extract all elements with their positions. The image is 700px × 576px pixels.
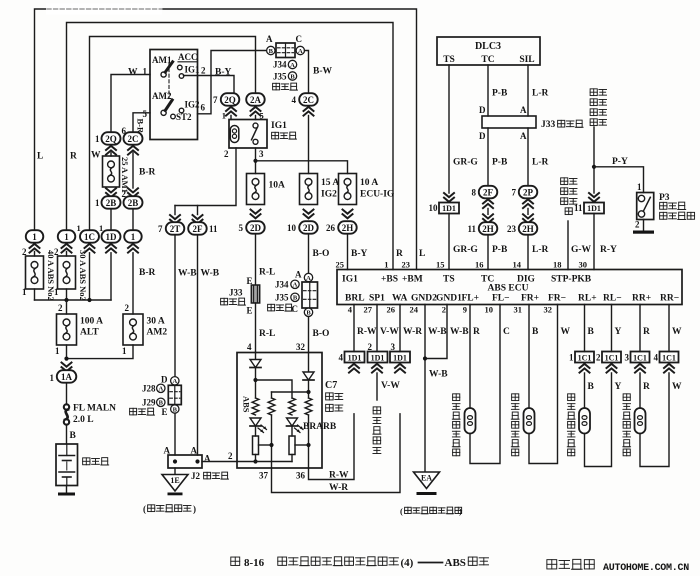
svg-text:A: A bbox=[295, 270, 302, 280]
svg-text:P-B: P-B bbox=[492, 89, 508, 99]
svg-text:ACC: ACC bbox=[178, 52, 198, 62]
svg-text:2C: 2C bbox=[303, 95, 314, 105]
fuse 10A ECU-IG bbox=[339, 174, 357, 205]
bus joining fuse outputs bbox=[35, 299, 112, 301]
wire from brake light switch to ECU STP bbox=[567, 221, 569, 270]
svg-text:1D1: 1D1 bbox=[393, 354, 407, 363]
wire R-L from 2D(5) to J33 bbox=[255, 234, 257, 285]
svg-text:TS: TS bbox=[443, 55, 455, 65]
wire B-O from 2D(10) to J34 middle bbox=[308, 234, 310, 273]
svg-text:32: 32 bbox=[296, 342, 306, 352]
svg-text:W-B: W-B bbox=[201, 269, 220, 279]
svg-text:P3: P3 bbox=[659, 193, 670, 203]
ground EA bbox=[414, 472, 440, 489]
label RL wheel speed sensor text bbox=[568, 394, 575, 401]
connector 7 2T bbox=[170, 215, 180, 219]
svg-text:IG2: IG2 bbox=[321, 190, 337, 200]
wire connector 2A to relay pin 5 bbox=[255, 116, 257, 120]
svg-text:FL MALN: FL MALN bbox=[73, 404, 116, 414]
svg-text:B-O: B-O bbox=[313, 329, 330, 339]
combination meter C7 box bbox=[237, 353, 322, 469]
svg-text:1: 1 bbox=[569, 353, 574, 363]
svg-text:RR+: RR+ bbox=[632, 294, 651, 304]
svg-text:W: W bbox=[672, 382, 682, 392]
svg-text:A: A bbox=[520, 105, 527, 115]
svg-text:1D1: 1D1 bbox=[442, 204, 456, 213]
svg-text:11: 11 bbox=[467, 224, 476, 234]
svg-text:DLC3: DLC3 bbox=[475, 41, 501, 52]
svg-text:GR-G: GR-G bbox=[453, 158, 478, 168]
svg-text:1: 1 bbox=[50, 373, 55, 383]
svg-text:1: 1 bbox=[95, 134, 100, 144]
svg-text:J35: J35 bbox=[273, 72, 287, 82]
svg-text:SP1: SP1 bbox=[369, 294, 385, 304]
svg-text:J33: J33 bbox=[541, 120, 556, 130]
svg-text:23: 23 bbox=[507, 224, 517, 234]
wire connector 2C down to fuse 15A IG2 bbox=[308, 116, 310, 174]
svg-text:AUTOHOME.COM.CN: AUTOHOME.COM.CN bbox=[603, 563, 689, 574]
svg-text:1C1: 1C1 bbox=[605, 354, 619, 363]
svg-text:26: 26 bbox=[326, 223, 336, 233]
svg-text:C7: C7 bbox=[325, 380, 337, 391]
svg-text:R-L: R-L bbox=[259, 329, 275, 339]
svg-text:2H: 2H bbox=[482, 224, 494, 234]
svg-text:B-R: B-R bbox=[139, 168, 156, 178]
svg-text:25: 25 bbox=[336, 260, 345, 270]
svg-text:C: C bbox=[292, 304, 299, 314]
fusible link FL MALN 2.0 L bbox=[66, 383, 68, 405]
C7 resistor branch C bbox=[289, 398, 296, 415]
svg-text:10A: 10A bbox=[269, 181, 286, 191]
svg-text:ABS ECU: ABS ECU bbox=[488, 284, 529, 294]
svg-text:WA: WA bbox=[392, 294, 407, 304]
C7 diode on pin32 branch bbox=[308, 353, 310, 373]
svg-text:AM2: AM2 bbox=[147, 328, 168, 338]
svg-text:+BM: +BM bbox=[402, 275, 423, 285]
svg-text:P-Y: P-Y bbox=[612, 157, 628, 167]
DLC3 diagnostic connector box bbox=[437, 37, 540, 65]
wire 2B(2) down to connector 1 bbox=[132, 209, 134, 230]
svg-text:100 A: 100 A bbox=[80, 317, 103, 327]
svg-text:8-16: 8-16 bbox=[244, 557, 265, 569]
svg-text:+BS: +BS bbox=[381, 275, 398, 285]
svg-text:16: 16 bbox=[475, 260, 484, 270]
svg-text:ECU-IG: ECU-IG bbox=[360, 190, 395, 200]
svg-text:1C1: 1C1 bbox=[662, 354, 676, 363]
svg-text:RR−: RR− bbox=[660, 294, 679, 304]
wire R-W from ECU BRL to 1D1 bbox=[353, 305, 355, 352]
svg-text:1: 1 bbox=[32, 232, 37, 242]
svg-text:R-Y: R-Y bbox=[600, 245, 617, 255]
wire relay pin3 junction to fuse ECU-IG bbox=[256, 161, 348, 174]
svg-text:L-R: L-R bbox=[532, 89, 549, 99]
svg-text:W-R: W-R bbox=[403, 327, 422, 337]
svg-text:1: 1 bbox=[122, 346, 127, 356]
svg-text:W-B: W-B bbox=[450, 327, 469, 337]
wire R feed (R wire: up, across, down to ECU +BS) bbox=[67, 23, 394, 270]
wire R-L from J33 to C7 pin 4 bbox=[255, 303, 257, 353]
label B on battery wire bbox=[66, 425, 68, 444]
svg-text:W-B: W-B bbox=[428, 327, 447, 337]
svg-text:B: B bbox=[306, 310, 311, 317]
svg-text:A: A bbox=[164, 446, 171, 456]
connector J34/J35 (top) grid box bbox=[276, 43, 295, 58]
C7 gauge A tap to branch B bbox=[259, 444, 272, 446]
wire W-B from 2T down to J2 bbox=[174, 235, 176, 376]
svg-text:2: 2 bbox=[442, 305, 446, 315]
wire from radio display down to 1D1 bbox=[593, 127, 595, 193]
wire, label 2, fuse 30 A ABS No2 bbox=[66, 252, 68, 257]
svg-text:4: 4 bbox=[339, 353, 344, 363]
svg-text:(: ( bbox=[143, 504, 146, 514]
svg-text:1: 1 bbox=[22, 287, 27, 297]
svg-text:Y: Y bbox=[615, 382, 622, 392]
wire 1C feed (1C wire up, across, down into connector 2A) bbox=[90, 37, 256, 231]
C7 resistor branch A bbox=[252, 398, 259, 415]
wire relay pin 2 down and left to 2T/2F connectors bbox=[175, 148, 236, 206]
wire TS from DLC3 bbox=[448, 65, 450, 193]
label FL wheel speed sensor text bbox=[453, 394, 460, 401]
svg-text:1D1: 1D1 bbox=[587, 204, 601, 213]
svg-text:W: W bbox=[561, 327, 571, 337]
wire B-Y from 2H(26) to ECU IG1 bbox=[347, 234, 349, 269]
wire V-W from ECU SP1 to 1D1 bbox=[376, 305, 378, 352]
svg-text:2P: 2P bbox=[523, 187, 534, 197]
svg-text:2: 2 bbox=[596, 353, 601, 363]
svg-text:GND1: GND1 bbox=[436, 294, 462, 304]
C7 gauge element A bbox=[253, 436, 259, 455]
svg-text:6: 6 bbox=[201, 103, 206, 113]
svg-text:E: E bbox=[162, 407, 168, 417]
svg-text:J33: J33 bbox=[229, 288, 243, 298]
svg-text:A: A bbox=[290, 62, 295, 69]
wire FL- return to ECU bbox=[470, 305, 500, 464]
svg-text:3: 3 bbox=[391, 342, 396, 352]
C7 diode on pin4 branch bbox=[255, 353, 257, 360]
svg-text:2.0 L: 2.0 L bbox=[73, 415, 94, 425]
C7 bus to pin 2 bbox=[237, 461, 292, 463]
svg-text:FR+: FR+ bbox=[521, 294, 539, 304]
svg-text:R: R bbox=[70, 152, 77, 162]
svg-text:2H: 2H bbox=[342, 223, 354, 233]
svg-text:1D: 1D bbox=[106, 232, 118, 242]
svg-text:R-L: R-L bbox=[259, 268, 275, 278]
svg-text:10: 10 bbox=[485, 305, 494, 315]
svg-text:24: 24 bbox=[410, 305, 419, 315]
svg-text:B: B bbox=[588, 327, 595, 337]
wire fuse40 down to bus bbox=[34, 289, 36, 300]
svg-text:2: 2 bbox=[201, 66, 206, 76]
svg-text:RL−: RL− bbox=[603, 294, 622, 304]
C7 BRARB warning LED bbox=[287, 418, 298, 426]
svg-text:5: 5 bbox=[143, 109, 148, 119]
C7 gauge element C bbox=[289, 436, 295, 455]
svg-text:1A: 1A bbox=[61, 372, 73, 382]
svg-text:14: 14 bbox=[513, 260, 522, 270]
connector 26 2H below fuse ECU-IG bbox=[343, 210, 353, 214]
C7 gauge C tap to branch D bbox=[295, 444, 309, 446]
wire TC J33 to 2F bbox=[487, 128, 489, 187]
fuse 100 A ALT bbox=[66, 300, 68, 314]
svg-text:1: 1 bbox=[222, 111, 226, 121]
label FR wheel speed sensor text bbox=[512, 394, 519, 401]
svg-text:J34: J34 bbox=[273, 60, 287, 70]
wire W-B from 2F down to J2 bbox=[197, 235, 199, 455]
svg-text:FL+: FL+ bbox=[462, 294, 480, 304]
svg-text:7: 7 bbox=[512, 188, 517, 198]
svg-text:L: L bbox=[419, 249, 425, 259]
svg-text:B: B bbox=[159, 400, 164, 407]
ignition switch assembly box bbox=[150, 50, 198, 140]
watermark overlay top-left (white smudge breaking the border) bbox=[46, 4, 162, 15]
wire RL- from ECU to 1C1 bbox=[611, 305, 613, 352]
svg-text:FR−: FR− bbox=[548, 294, 566, 304]
svg-text:2Q: 2Q bbox=[224, 95, 236, 105]
svg-text:ALT: ALT bbox=[80, 328, 99, 338]
wire 1C down to bus bbox=[89, 253, 91, 300]
svg-text:B-Y: B-Y bbox=[351, 249, 368, 259]
label lianjieqi (connector) under J34/J35 bbox=[273, 83, 280, 90]
svg-text:C: C bbox=[296, 34, 303, 44]
svg-text:A: A bbox=[298, 48, 303, 55]
svg-text:GR-G: GR-G bbox=[453, 245, 478, 255]
svg-text:30 A: 30 A bbox=[147, 317, 165, 327]
wire FL+ from ECU to sensor bbox=[469, 305, 471, 409]
svg-text:32: 32 bbox=[544, 305, 553, 315]
svg-text:W: W bbox=[128, 68, 138, 78]
svg-text:15: 15 bbox=[436, 260, 445, 270]
svg-text:P-B: P-B bbox=[492, 245, 508, 255]
svg-text:2A: 2A bbox=[250, 95, 262, 105]
svg-text:2Q: 2Q bbox=[105, 134, 117, 144]
svg-text:1E: 1E bbox=[170, 476, 179, 485]
svg-text:A: A bbox=[306, 275, 311, 282]
svg-text:E: E bbox=[247, 306, 253, 316]
relay IG1 switch contacts bbox=[253, 123, 258, 128]
svg-text:B-R: B-R bbox=[139, 268, 156, 278]
svg-text:1C1: 1C1 bbox=[578, 354, 592, 363]
svg-text:J2: J2 bbox=[191, 471, 201, 481]
svg-text:9: 9 bbox=[463, 305, 467, 315]
svg-text:R: R bbox=[473, 327, 480, 337]
svg-text:1C: 1C bbox=[84, 232, 95, 242]
svg-text:A: A bbox=[172, 378, 177, 385]
svg-text:A: A bbox=[520, 131, 527, 141]
wire RL+ from ECU to 1C1 bbox=[584, 305, 586, 352]
C7 branch B horizontal bbox=[272, 391, 309, 393]
svg-text:2: 2 bbox=[228, 451, 233, 461]
svg-text:2C: 2C bbox=[128, 134, 139, 144]
wheel speed sensor FR (front) bbox=[524, 408, 535, 434]
svg-text:10: 10 bbox=[429, 203, 439, 213]
svg-text:FL−: FL− bbox=[492, 294, 510, 304]
wire B-O from J34 middle to C7 pin 32 bbox=[308, 317, 310, 353]
svg-text:G-W: G-W bbox=[571, 245, 592, 255]
connector 10 1D1 on TS wire bbox=[444, 193, 454, 197]
svg-text:R-W: R-W bbox=[357, 327, 377, 337]
connector 1A bbox=[62, 363, 72, 367]
svg-text:V-W: V-W bbox=[381, 381, 400, 391]
svg-text:R: R bbox=[643, 382, 650, 392]
svg-text:W: W bbox=[672, 327, 682, 337]
C7 resistor branch B bbox=[268, 398, 275, 415]
svg-text:): ) bbox=[193, 504, 196, 514]
wire FR- return to ECU bbox=[529, 305, 558, 464]
wire 1D down to bus bbox=[110, 253, 112, 300]
svg-text:W: W bbox=[91, 151, 101, 161]
wire 2B to 1D bbox=[110, 209, 112, 230]
fuse 15A IG2 bbox=[300, 174, 318, 205]
svg-text:D: D bbox=[479, 131, 486, 141]
svg-text:10 A: 10 A bbox=[360, 178, 378, 188]
svg-text:30: 30 bbox=[579, 260, 588, 270]
wheel speed sensor RL (rear) bbox=[579, 408, 590, 434]
svg-text:D: D bbox=[479, 105, 486, 115]
svg-text:1: 1 bbox=[95, 198, 100, 208]
svg-text:4: 4 bbox=[247, 342, 252, 352]
svg-text:4: 4 bbox=[654, 353, 659, 363]
svg-text:L-R: L-R bbox=[532, 245, 549, 255]
wire RR- return bbox=[640, 373, 669, 467]
connector 1 (column B-R) bbox=[124, 230, 142, 243]
label from brake light switch (laizi zhidong deng kaiguan) bbox=[561, 178, 568, 185]
svg-text:11: 11 bbox=[209, 224, 218, 234]
svg-text:W-B: W-B bbox=[429, 370, 448, 380]
svg-text:C: C bbox=[503, 327, 510, 337]
svg-text:EA: EA bbox=[421, 474, 432, 483]
caption figure 8-16 bbox=[231, 557, 240, 565]
connector J28/J29 grid box with circled pins bbox=[171, 377, 179, 385]
svg-text:D: D bbox=[161, 375, 168, 385]
svg-text:L: L bbox=[37, 152, 43, 162]
svg-text:IG1: IG1 bbox=[185, 65, 201, 75]
svg-text:1D1: 1D1 bbox=[371, 354, 385, 363]
wire V-W to combination meter bbox=[376, 373, 378, 400]
svg-text:18: 18 bbox=[553, 260, 562, 270]
svg-text:(4): (4) bbox=[401, 557, 414, 569]
wire SIL from DLC3 with L-R label bbox=[527, 65, 529, 116]
svg-text:15 A: 15 A bbox=[321, 178, 339, 188]
svg-text:J34: J34 bbox=[275, 280, 289, 290]
svg-text:B: B bbox=[588, 382, 595, 392]
svg-text:B-O: B-O bbox=[313, 249, 330, 259]
svg-text:1: 1 bbox=[384, 260, 388, 270]
svg-text:5: 5 bbox=[239, 223, 244, 233]
svg-text:GND2: GND2 bbox=[411, 294, 437, 304]
svg-text:36: 36 bbox=[296, 471, 306, 481]
svg-text:B: B bbox=[293, 295, 298, 302]
svg-text:26: 26 bbox=[387, 305, 396, 315]
label RR wheel speed sensor text bbox=[623, 394, 630, 401]
svg-text:2: 2 bbox=[125, 303, 130, 313]
svg-text:L-R: L-R bbox=[532, 158, 549, 168]
svg-text:R-W: R-W bbox=[329, 471, 349, 481]
svg-text:2: 2 bbox=[224, 149, 229, 159]
wire B-R from switch AM2 down left side bbox=[133, 113, 150, 132]
svg-text:1D1: 1D1 bbox=[348, 354, 362, 363]
svg-text:J29: J29 bbox=[142, 398, 156, 408]
svg-text:W-B: W-B bbox=[178, 269, 197, 279]
connector 2B pin 2 bbox=[128, 188, 138, 192]
svg-text:(: ( bbox=[400, 506, 403, 516]
svg-text:B: B bbox=[269, 48, 274, 55]
wire relay pin 3 to fuse 10A with junction bbox=[255, 148, 257, 174]
relay IG1 box bbox=[229, 120, 267, 149]
svg-text:J28: J28 bbox=[142, 384, 156, 394]
svg-text:37: 37 bbox=[259, 471, 269, 481]
wheel speed sensor RR (rear) bbox=[635, 408, 646, 434]
wire FR+ from ECU to sensor bbox=[528, 305, 530, 409]
svg-text:31: 31 bbox=[514, 305, 523, 315]
battery ground bbox=[66, 486, 68, 493]
connector 2A bbox=[246, 93, 265, 106]
wire RR- from ECU to 1C1 bbox=[668, 305, 670, 352]
fuse 25 A AM1 bbox=[110, 153, 112, 156]
svg-text:ST2: ST2 bbox=[176, 112, 192, 122]
wire RL+ from 1C1 to sensor bbox=[584, 373, 586, 408]
svg-text:): ) bbox=[459, 506, 462, 516]
svg-text:B-W: B-W bbox=[313, 67, 333, 77]
svg-text:A: A bbox=[191, 446, 198, 456]
svg-text:1: 1 bbox=[77, 223, 81, 233]
ground 1E below J2 bbox=[174, 468, 176, 475]
J34 pin A (circled) bbox=[296, 46, 304, 54]
C7 resistor branch D bbox=[305, 398, 312, 415]
svg-text:TC: TC bbox=[481, 55, 494, 65]
svg-text:30 A ABS No2: 30 A ABS No2 bbox=[78, 250, 88, 301]
wire from J34 pin B to switch IG2 bbox=[198, 51, 267, 114]
wire RL- return bbox=[585, 373, 612, 467]
label battery (xudianchi) bbox=[83, 458, 90, 465]
wire L feed (battery L wire: left column up, across top, down to ECU +BM) bbox=[35, 9, 417, 270]
wire SIL J33 to 2P bbox=[527, 128, 529, 187]
svg-text:23: 23 bbox=[402, 260, 411, 270]
label lianjieqi E bbox=[130, 408, 137, 415]
wire B-Y from switch IG1 to connector 2Q bbox=[184, 76, 235, 94]
svg-text:BRL: BRL bbox=[345, 294, 365, 304]
connector 1 (column L) bbox=[26, 230, 44, 243]
wire joining ALT and AM2 fuse outputs bbox=[66, 345, 68, 359]
svg-text:7: 7 bbox=[213, 95, 218, 105]
wire J2 to C7 pin 2 bbox=[202, 461, 237, 463]
label to combination meter (zhi zuhe yibiao) bbox=[373, 407, 380, 414]
svg-text:1: 1 bbox=[55, 346, 60, 356]
svg-text:2B: 2B bbox=[128, 198, 139, 208]
svg-text:RL+: RL+ bbox=[578, 294, 597, 304]
svg-text:IG1: IG1 bbox=[271, 121, 287, 131]
svg-text:ABS: ABS bbox=[242, 396, 252, 413]
svg-text:2: 2 bbox=[58, 303, 63, 313]
watermark autohome bottom right bbox=[547, 560, 557, 569]
svg-text:B: B bbox=[290, 73, 295, 80]
svg-text:DIG: DIG bbox=[517, 275, 536, 285]
C7 branch C from junction bbox=[256, 380, 293, 398]
svg-text:1: 1 bbox=[637, 182, 642, 192]
svg-text:2F: 2F bbox=[483, 187, 494, 197]
svg-text:8: 8 bbox=[472, 188, 477, 198]
connector 10 2D below fuse IG2 bbox=[304, 210, 314, 214]
svg-text:TC: TC bbox=[481, 275, 494, 285]
ignition switch mechanical link (dashed) bbox=[168, 63, 170, 98]
label from radio display (laizi shouyinji xianshiping) bbox=[590, 89, 597, 96]
svg-text:P-B: P-B bbox=[492, 158, 508, 168]
svg-text:B: B bbox=[532, 327, 539, 337]
svg-text:V-W: V-W bbox=[380, 327, 399, 337]
svg-text:4: 4 bbox=[348, 305, 353, 315]
svg-text:W-R: W-R bbox=[329, 483, 348, 493]
svg-text:R: R bbox=[643, 327, 650, 337]
battery bbox=[56, 444, 78, 486]
